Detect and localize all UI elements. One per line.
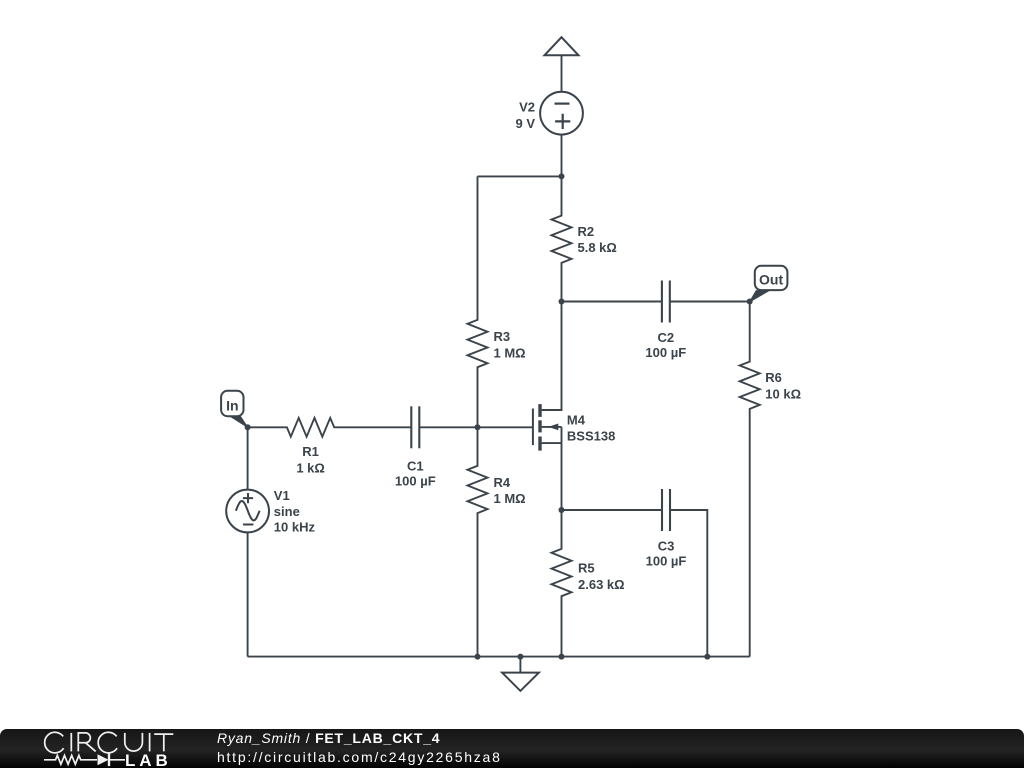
junction R5 bottom	[559, 654, 565, 660]
svg-text:C3: C3	[658, 538, 675, 553]
transistor M4 body arrow	[550, 424, 558, 429]
junction source node	[559, 507, 565, 513]
attribution line 1	[217, 730, 440, 746]
resistor R2	[552, 176, 572, 301]
wire top rail	[478, 175, 562, 177]
svg-text:sine: sine	[274, 504, 300, 519]
node flag In box	[221, 391, 243, 416]
transistor M4 source lead	[542, 442, 562, 444]
V1 plus sign	[243, 493, 253, 503]
V2 plus sign	[555, 114, 570, 129]
transistor M4 channel mid dash	[538, 420, 541, 432]
svg-text:9 V: 9 V	[515, 116, 535, 131]
capacitor C3 left plate	[661, 489, 663, 531]
svg-text:V2: V2	[519, 99, 535, 114]
capacitor C2 left plate	[661, 281, 663, 323]
wire gate node to M4 gate	[478, 426, 533, 428]
svg-text:5.8 kΩ: 5.8 kΩ	[578, 240, 617, 255]
resistor R4	[468, 427, 488, 656]
wire V1 to bottom rail	[247, 532, 249, 656]
svg-text:BSS138: BSS138	[567, 429, 615, 444]
svg-text:R5: R5	[578, 561, 595, 576]
capacitor C1 left plate	[410, 406, 412, 448]
ground symbol	[502, 673, 539, 691]
transistor M4 body lead	[542, 426, 562, 428]
wire source node to C3	[562, 509, 663, 511]
resistor R3	[468, 176, 488, 427]
junction C3 branch bottom	[704, 654, 710, 660]
wire V2 to node	[561, 135, 563, 177]
capacitor C3 right plate	[669, 489, 671, 531]
node flag Out pointer	[750, 291, 769, 302]
svg-text:V1: V1	[274, 488, 290, 503]
CircuitLab logo resistor-diode glyph	[43, 752, 133, 768]
wire In node to V1	[247, 427, 249, 489]
junction ground tap	[517, 654, 523, 660]
footer bar	[0, 729, 1024, 768]
transistor M4 drain lead	[542, 302, 562, 411]
svg-text:In: In	[226, 397, 238, 413]
capacitor C2 right plate	[669, 281, 671, 323]
svg-text:2.63 kΩ: 2.63 kΩ	[578, 577, 625, 592]
wire power flag to V2	[561, 55, 563, 92]
voltage source V1 circle	[226, 490, 269, 533]
svg-text:1 kΩ: 1 kΩ	[296, 461, 325, 476]
power flag V+ arrow	[545, 37, 579, 55]
wire C1 to gate node	[419, 426, 477, 428]
svg-text:100 µF: 100 µF	[645, 345, 686, 360]
junction R4 bottom	[475, 654, 481, 660]
junction gate node	[475, 424, 481, 430]
capacitor C1 right plate	[418, 406, 420, 448]
attribution line 2	[217, 749, 502, 765]
CircuitLab logo CIRCUIT word	[40, 730, 180, 756]
resistor R6	[740, 302, 760, 657]
junction top rail	[559, 173, 565, 179]
transistor M4 channel bottom dash	[538, 437, 541, 451]
wire C3 to corner	[670, 510, 707, 657]
svg-text:M4: M4	[567, 413, 586, 428]
svg-text:R6: R6	[765, 370, 782, 385]
svg-text:R4: R4	[494, 475, 511, 490]
svg-text:R3: R3	[494, 329, 511, 344]
V2 minus sign	[555, 102, 570, 104]
transistor M4 gate bar	[532, 409, 534, 446]
junction Out node	[747, 299, 753, 305]
svg-text:R1: R1	[302, 444, 319, 459]
junction In node	[245, 424, 251, 430]
svg-text:C1: C1	[407, 459, 424, 474]
svg-text:1 MΩ: 1 MΩ	[494, 345, 526, 360]
resistor R5	[552, 510, 572, 657]
node flag Out box	[755, 266, 788, 290]
voltage source V2 circle	[540, 92, 583, 135]
transistor M4 channel top dash	[538, 404, 541, 417]
V1 sine wave	[236, 501, 260, 520]
node flag In pointer	[230, 414, 248, 428]
wire drain node to C2	[562, 301, 662, 303]
svg-text:R2: R2	[578, 224, 595, 239]
wire C2 to Out node	[670, 301, 750, 303]
svg-text:C2: C2	[657, 330, 674, 345]
svg-text:10 kΩ: 10 kΩ	[765, 386, 801, 401]
svg-text:Out: Out	[759, 271, 783, 287]
wire M4 source to node	[561, 427, 563, 510]
V1 minus sign	[243, 524, 253, 526]
wire bottom rail	[248, 656, 750, 658]
svg-text:100 µF: 100 µF	[395, 474, 436, 489]
svg-text:100 µF: 100 µF	[646, 553, 687, 568]
resistor R1	[248, 418, 412, 437]
svg-text:10 kHz: 10 kHz	[274, 520, 316, 535]
ground stub	[519, 657, 521, 673]
junction drain node	[559, 299, 565, 305]
CircuitLab logo LAB word	[125, 751, 172, 768]
svg-text:1 MΩ: 1 MΩ	[494, 491, 526, 506]
